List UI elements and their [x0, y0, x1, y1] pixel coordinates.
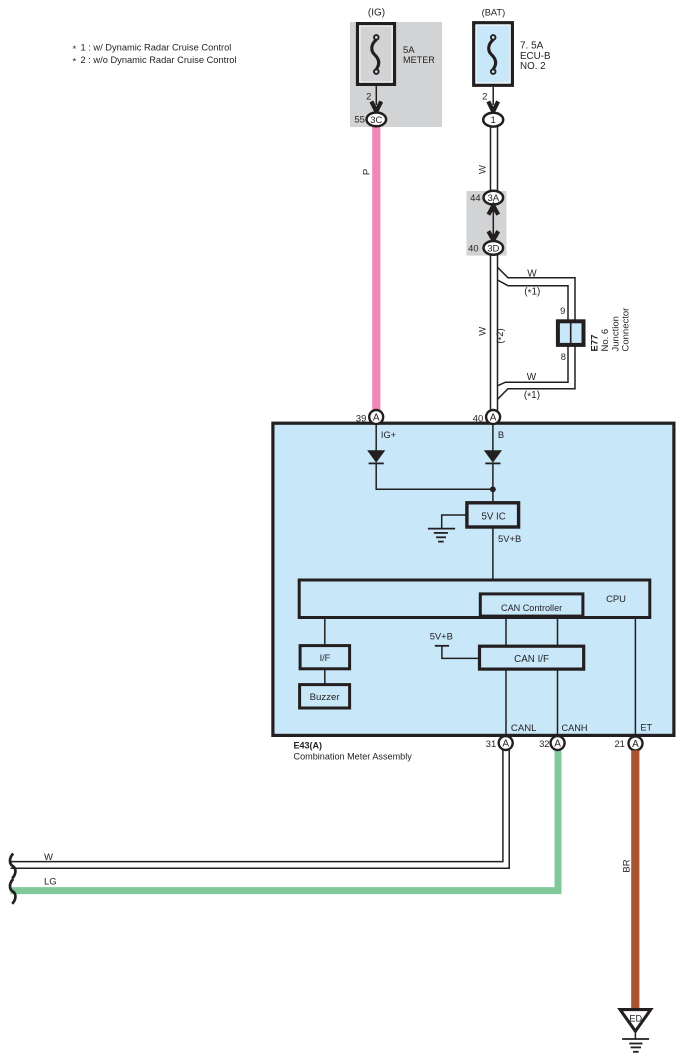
svg-text:21: 21: [614, 738, 624, 749]
svg-text:A: A: [373, 413, 380, 424]
pin 39 connector A: [369, 410, 383, 424]
wire BR to ground (brown): [631, 750, 639, 1011]
svg-text:2: 2: [482, 91, 487, 102]
arrow down into 3D: [488, 231, 498, 240]
diode D2: [484, 450, 502, 463]
CAN controller block: [480, 594, 583, 616]
svg-text:(BAT): (BAT): [482, 8, 506, 18]
wire CAN controller to CAN I/F (right): [557, 610, 559, 650]
E77 designation labels (rotated): [590, 308, 632, 352]
svg-text:7. 5A: 7. 5A: [520, 41, 544, 52]
svg-text:9: 9: [560, 305, 565, 316]
wire CANH to pin 32: [557, 665, 559, 734]
svg-text:ET: ET: [640, 722, 652, 732]
svg-text:40: 40: [468, 242, 478, 253]
break symbol (LG wire): [10, 879, 15, 904]
wire from METER fuse: [375, 86, 377, 105]
cpu block U1: [299, 580, 650, 618]
svg-text:IG+: IG+: [381, 430, 396, 440]
svg-text:W: W: [527, 372, 537, 383]
svg-text:1 : w/ Dynamic Radar Cruise Co: 1 : w/ Dynamic Radar Cruise Control: [81, 42, 232, 52]
wire W (white, fuse to 3A): [491, 124, 498, 191]
svg-text:55: 55: [354, 113, 364, 124]
svg-text:LG: LG: [44, 876, 57, 887]
svg-text:E43(A): E43(A): [294, 740, 323, 750]
wire from ECU-B fuse: [492, 87, 494, 105]
svg-text:Connector: Connector: [621, 308, 632, 352]
svg-text:3D: 3D: [487, 243, 499, 254]
CAN I/F block: [480, 646, 584, 669]
svg-text:3C: 3C: [370, 115, 382, 126]
svg-text:W: W: [477, 165, 488, 174]
fuse 5A METER: [358, 24, 395, 85]
svg-text:2: 2: [366, 91, 371, 102]
svg-text:A: A: [554, 739, 561, 750]
connector 3D: [484, 241, 504, 255]
svg-text:B: B: [498, 429, 504, 440]
I/F block: [300, 646, 350, 669]
pin 31 connector A: [499, 736, 513, 750]
wire IG+ internal: [375, 424, 377, 451]
svg-text:CANL: CANL: [511, 723, 537, 734]
wire W (white, 3D to meter): [491, 255, 498, 411]
svg-text:CPU: CPU: [606, 593, 626, 604]
pin 21 connector A: [629, 736, 643, 750]
svg-text:39: 39: [356, 412, 366, 423]
svg-text:2 : w/o Dynamic Radar Cruise C: 2 : w/o Dynamic Radar Cruise Control: [81, 55, 237, 65]
svg-text:METER: METER: [403, 55, 435, 65]
svg-text:8: 8: [561, 351, 566, 362]
svg-text:40: 40: [473, 412, 483, 423]
svg-text:W: W: [478, 327, 489, 336]
svg-text:32: 32: [539, 738, 549, 749]
svg-text:CAN Controller: CAN Controller: [501, 603, 562, 613]
junction node: [490, 486, 496, 492]
wire 5V IC to CPU: [492, 527, 494, 581]
wire B internal: [492, 424, 494, 451]
gray shading behind METER fuse: [350, 22, 442, 127]
svg-text:31: 31: [486, 738, 496, 749]
arrow into connector 1: [488, 101, 498, 111]
ground point ED: [620, 1010, 651, 1032]
svg-text:A: A: [502, 739, 509, 750]
wire from D1 to node: [376, 463, 493, 490]
pin 40 connector A: [486, 410, 500, 424]
pin 32 connector A: [551, 736, 565, 750]
wire W to CANL (white): [11, 750, 510, 868]
arrow up into 3A: [488, 206, 498, 215]
svg-text:(*1): (*1): [524, 390, 540, 403]
svg-text:5V IC: 5V IC: [481, 512, 505, 523]
note legend *1: [73, 42, 232, 55]
note legend *2: [73, 55, 237, 68]
5V+B supply tick to CAN I/F: [435, 646, 479, 659]
svg-text:W: W: [527, 268, 537, 279]
svg-text:CAN I/F: CAN I/F: [514, 654, 549, 665]
svg-text:A: A: [632, 739, 639, 750]
gray shading behind 3A/3D connectors: [467, 191, 507, 256]
wire LG to CANH (green): [11, 750, 559, 891]
svg-text:5V+B: 5V+B: [498, 533, 521, 544]
svg-text:P: P: [362, 169, 373, 175]
diode D1: [367, 450, 385, 463]
internal ground at 5V IC: [428, 515, 466, 542]
arrow into connector 3C: [371, 101, 381, 111]
wire I/F to buzzer: [324, 669, 326, 685]
junction connector E77: [558, 321, 584, 345]
svg-text:Combination Meter Assembly: Combination Meter Assembly: [294, 752, 413, 762]
wire from D2 to 5V IC: [492, 463, 494, 502]
svg-text:I/F: I/F: [320, 653, 331, 663]
wire P (pink): [372, 123, 380, 411]
branch wire W (*1) lower from E77 pin 8: [498, 345, 576, 399]
svg-text:ED: ED: [629, 1013, 642, 1023]
svg-text:E77: E77: [590, 335, 601, 352]
svg-text:*: *: [73, 56, 77, 67]
fuse 7.5A ECU-B NO.2: [474, 23, 513, 86]
buzzer block: [300, 685, 350, 708]
svg-text:A: A: [490, 413, 497, 424]
svg-text:NO. 2: NO. 2: [520, 61, 546, 72]
regulator 5V IC: [467, 503, 519, 527]
wire CANL to pin 31: [505, 665, 507, 734]
connector 3C: [367, 113, 387, 127]
ground symbol ED: [622, 1033, 649, 1052]
svg-text:(*2): (*2): [495, 328, 508, 343]
svg-text:(*1): (*1): [524, 287, 540, 300]
svg-text:5V+B: 5V+B: [430, 631, 453, 642]
svg-text:(IG): (IG): [368, 8, 385, 19]
svg-text:Buzzer: Buzzer: [310, 692, 341, 703]
break symbol (W wire): [10, 854, 15, 879]
svg-text:44: 44: [470, 192, 480, 203]
wire between arrows: [492, 208, 494, 240]
svg-text:W: W: [44, 852, 53, 863]
svg-text:CANH: CANH: [562, 723, 588, 733]
wire CPU to I/F: [324, 610, 326, 650]
branch wire W (*1) upper to E77 pin 9: [498, 267, 576, 321]
svg-text:*: *: [73, 44, 77, 55]
svg-text:1: 1: [491, 115, 496, 126]
svg-text:BR: BR: [622, 859, 633, 872]
combination meter assembly box E43(A): [273, 423, 674, 735]
wire ET from CPU: [634, 610, 636, 734]
wire CAN controller to CAN I/F (left): [505, 610, 507, 650]
connector 3A: [484, 191, 504, 205]
connector 1: [483, 113, 503, 127]
